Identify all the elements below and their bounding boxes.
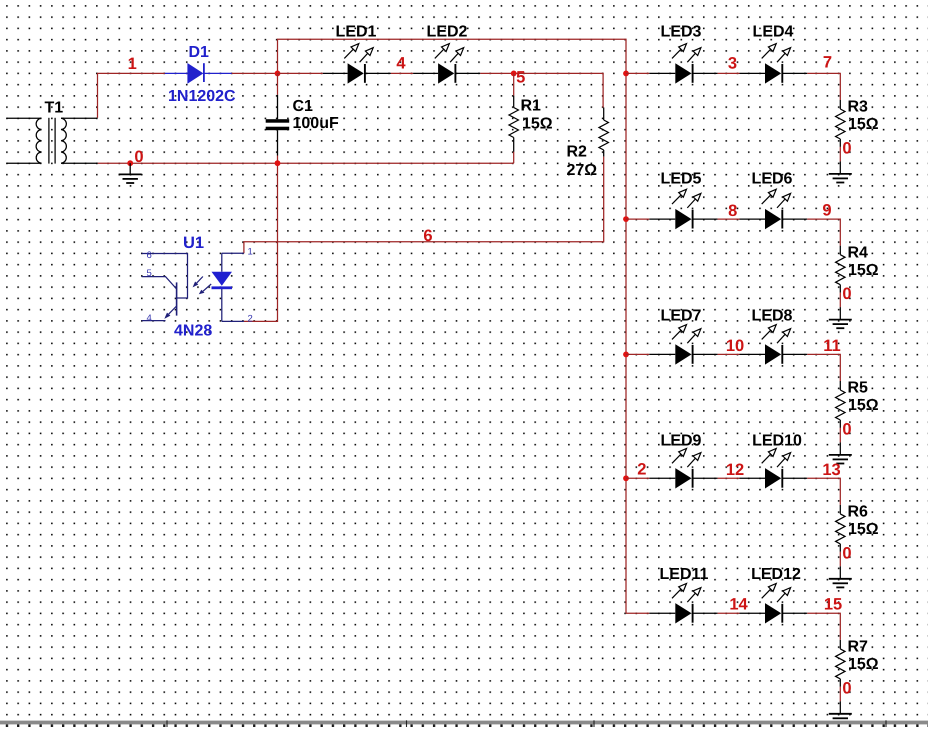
svg-text:5: 5 bbox=[147, 268, 152, 279]
junction node 5 bbox=[511, 71, 517, 77]
wire net 1 to LED1 bbox=[278, 72, 323, 74]
junction node row 2 bbox=[623, 216, 629, 222]
svg-text:9: 9 bbox=[822, 202, 831, 220]
svg-text:U1: U1 bbox=[183, 234, 204, 252]
wire net 1 D1 to C1 node bbox=[232, 72, 278, 74]
junction node 0 at C1 bottom bbox=[275, 160, 281, 166]
svg-text:LED9: LED9 bbox=[661, 432, 702, 449]
wire net 0 R3 bottom bbox=[839, 147, 841, 162]
svg-text:15Ω: 15Ω bbox=[848, 262, 879, 279]
svg-text:R2: R2 bbox=[567, 144, 588, 161]
svg-text:LED5: LED5 bbox=[661, 171, 702, 188]
svg-text:15: 15 bbox=[824, 596, 842, 614]
wire feed row 1 bbox=[626, 72, 649, 74]
svg-text:15Ω: 15Ω bbox=[848, 116, 879, 133]
svg-text:R1: R1 bbox=[521, 98, 542, 115]
transformer T1 bbox=[7, 118, 98, 164]
svg-text:1: 1 bbox=[248, 246, 253, 257]
splitter bar bbox=[0, 721, 928, 725]
svg-text:0: 0 bbox=[842, 420, 851, 438]
ground for R3 bbox=[839, 161, 841, 174]
resistor R2 bbox=[567, 108, 609, 179]
svg-text:4: 4 bbox=[147, 313, 152, 324]
svg-text:11: 11 bbox=[823, 337, 840, 355]
resistor R5 bbox=[836, 380, 879, 428]
LED LED10 bbox=[740, 432, 808, 488]
svg-text:R5: R5 bbox=[848, 380, 869, 397]
wire feed row 5 bbox=[626, 612, 649, 614]
wire net 5 bbox=[480, 73, 603, 107]
wire node 4 bbox=[391, 72, 413, 74]
svg-text:0: 0 bbox=[842, 544, 851, 562]
svg-text:LED7: LED7 bbox=[661, 308, 702, 325]
LED LED6 bbox=[740, 171, 808, 230]
wire net 0 R7 bottom bbox=[839, 687, 841, 702]
svg-text:2: 2 bbox=[637, 460, 646, 478]
resistor R7 bbox=[836, 639, 879, 687]
LED LED4 bbox=[740, 24, 808, 84]
svg-text:13: 13 bbox=[822, 461, 840, 479]
svg-text:T1: T1 bbox=[45, 99, 64, 116]
ground for R4 bbox=[839, 307, 841, 320]
svg-text:8: 8 bbox=[728, 202, 737, 220]
svg-text:3: 3 bbox=[728, 55, 737, 73]
LED LED7 bbox=[649, 308, 717, 365]
LED LED12 bbox=[740, 566, 808, 624]
wire net 0 below C1 down to U1 pin2 bbox=[244, 156, 278, 322]
svg-text:15Ω: 15Ω bbox=[848, 656, 879, 673]
wire net 1 from T1 up bbox=[98, 73, 165, 117]
svg-text:LED10: LED10 bbox=[752, 432, 802, 449]
op-amp U1 optocoupler 4N28 bbox=[142, 253, 244, 321]
wire node 8 bbox=[718, 218, 740, 220]
svg-text:0: 0 bbox=[134, 148, 143, 166]
wire net 0 R5 bottom bbox=[839, 428, 841, 443]
svg-text:27Ω: 27Ω bbox=[567, 162, 598, 179]
wire node 11 bbox=[807, 354, 840, 381]
svg-text:R4: R4 bbox=[848, 244, 869, 261]
svg-text:LED6: LED6 bbox=[752, 171, 793, 188]
svg-text:2: 2 bbox=[248, 314, 253, 325]
wire feed row 2 bbox=[626, 218, 649, 220]
LED LED3 bbox=[649, 24, 717, 84]
svg-text:4N28: 4N28 bbox=[174, 323, 212, 340]
wire feed row 4 bbox=[626, 477, 649, 479]
wire net 0 R4 bottom bbox=[839, 293, 841, 308]
svg-text:12: 12 bbox=[726, 461, 744, 479]
junction node row 4 bbox=[623, 475, 629, 481]
svg-text:D1: D1 bbox=[189, 44, 210, 61]
svg-text:R6: R6 bbox=[848, 504, 869, 521]
LED LED2 bbox=[413, 24, 480, 84]
svg-text:15Ω: 15Ω bbox=[848, 397, 879, 414]
LED LED5 bbox=[649, 171, 717, 230]
wire node 3 bbox=[718, 72, 740, 74]
ground for R6 bbox=[839, 566, 841, 579]
svg-text:100uF: 100uF bbox=[293, 115, 339, 132]
wire net 1 C1 top lead red part bbox=[277, 73, 279, 94]
junction node 0 at ground tap bbox=[127, 160, 133, 166]
junction node row 1 bbox=[623, 71, 629, 77]
resistor R4 bbox=[836, 244, 879, 292]
wire node 14 bbox=[718, 612, 740, 614]
svg-text:7: 7 bbox=[823, 54, 832, 72]
LED LED9 bbox=[649, 432, 717, 488]
resistor R6 bbox=[836, 504, 879, 552]
svg-text:LED4: LED4 bbox=[753, 24, 794, 41]
svg-text:0: 0 bbox=[842, 679, 851, 697]
svg-text:LED8: LED8 bbox=[752, 308, 793, 325]
wire R1 bottom to net 0 bbox=[513, 152, 515, 163]
ground GND main bbox=[129, 163, 131, 174]
LED LED1 bbox=[323, 24, 391, 84]
svg-text:5: 5 bbox=[516, 69, 525, 87]
svg-text:R7: R7 bbox=[848, 639, 869, 656]
wire node 7 bbox=[807, 73, 840, 100]
wire net 1 bypass: up over to right column bbox=[278, 39, 627, 613]
svg-text:15Ω: 15Ω bbox=[848, 521, 879, 538]
svg-text:R3: R3 bbox=[848, 99, 869, 116]
svg-text:LED11: LED11 bbox=[660, 566, 709, 583]
svg-text:LED12: LED12 bbox=[751, 566, 801, 583]
svg-text:C1: C1 bbox=[293, 98, 314, 115]
wire net 0 R6 bottom bbox=[839, 552, 841, 567]
wire node 10 bbox=[718, 353, 740, 355]
wire node 12 bbox=[718, 477, 740, 479]
svg-text:1N1202C: 1N1202C bbox=[168, 88, 236, 105]
svg-text:10: 10 bbox=[726, 337, 744, 355]
junction node row 3 bbox=[623, 352, 629, 358]
svg-text:0: 0 bbox=[842, 139, 851, 157]
svg-text:LED2: LED2 bbox=[427, 24, 468, 41]
resistor R1 bbox=[509, 73, 553, 151]
svg-text:LED1: LED1 bbox=[336, 24, 377, 41]
diode D1 bbox=[165, 44, 236, 105]
ground for R7 bbox=[839, 701, 841, 714]
capacitor C1 bbox=[266, 95, 339, 156]
wire node 9 bbox=[807, 219, 840, 246]
junction node 1 at C1 bbox=[275, 71, 281, 77]
svg-text:1: 1 bbox=[128, 55, 137, 73]
svg-text:15Ω: 15Ω bbox=[522, 116, 553, 133]
svg-text:LED3: LED3 bbox=[661, 24, 702, 41]
LED LED8 bbox=[740, 308, 808, 365]
svg-text:14: 14 bbox=[729, 596, 748, 614]
svg-text:6: 6 bbox=[423, 227, 432, 245]
wire net 6 R2 bottom to U1 pin1 bbox=[244, 157, 604, 254]
ground for R5 bbox=[839, 442, 841, 455]
wire feed row 3 bbox=[626, 353, 649, 355]
wire node 15 bbox=[807, 613, 840, 640]
svg-text:4: 4 bbox=[396, 54, 406, 72]
wire net 0 horizontal bbox=[98, 162, 514, 164]
LED LED11 bbox=[649, 566, 717, 624]
svg-text:0: 0 bbox=[842, 285, 851, 303]
svg-text:6: 6 bbox=[147, 250, 152, 261]
resistor R3 bbox=[836, 99, 879, 147]
wire node 13 bbox=[807, 478, 840, 505]
